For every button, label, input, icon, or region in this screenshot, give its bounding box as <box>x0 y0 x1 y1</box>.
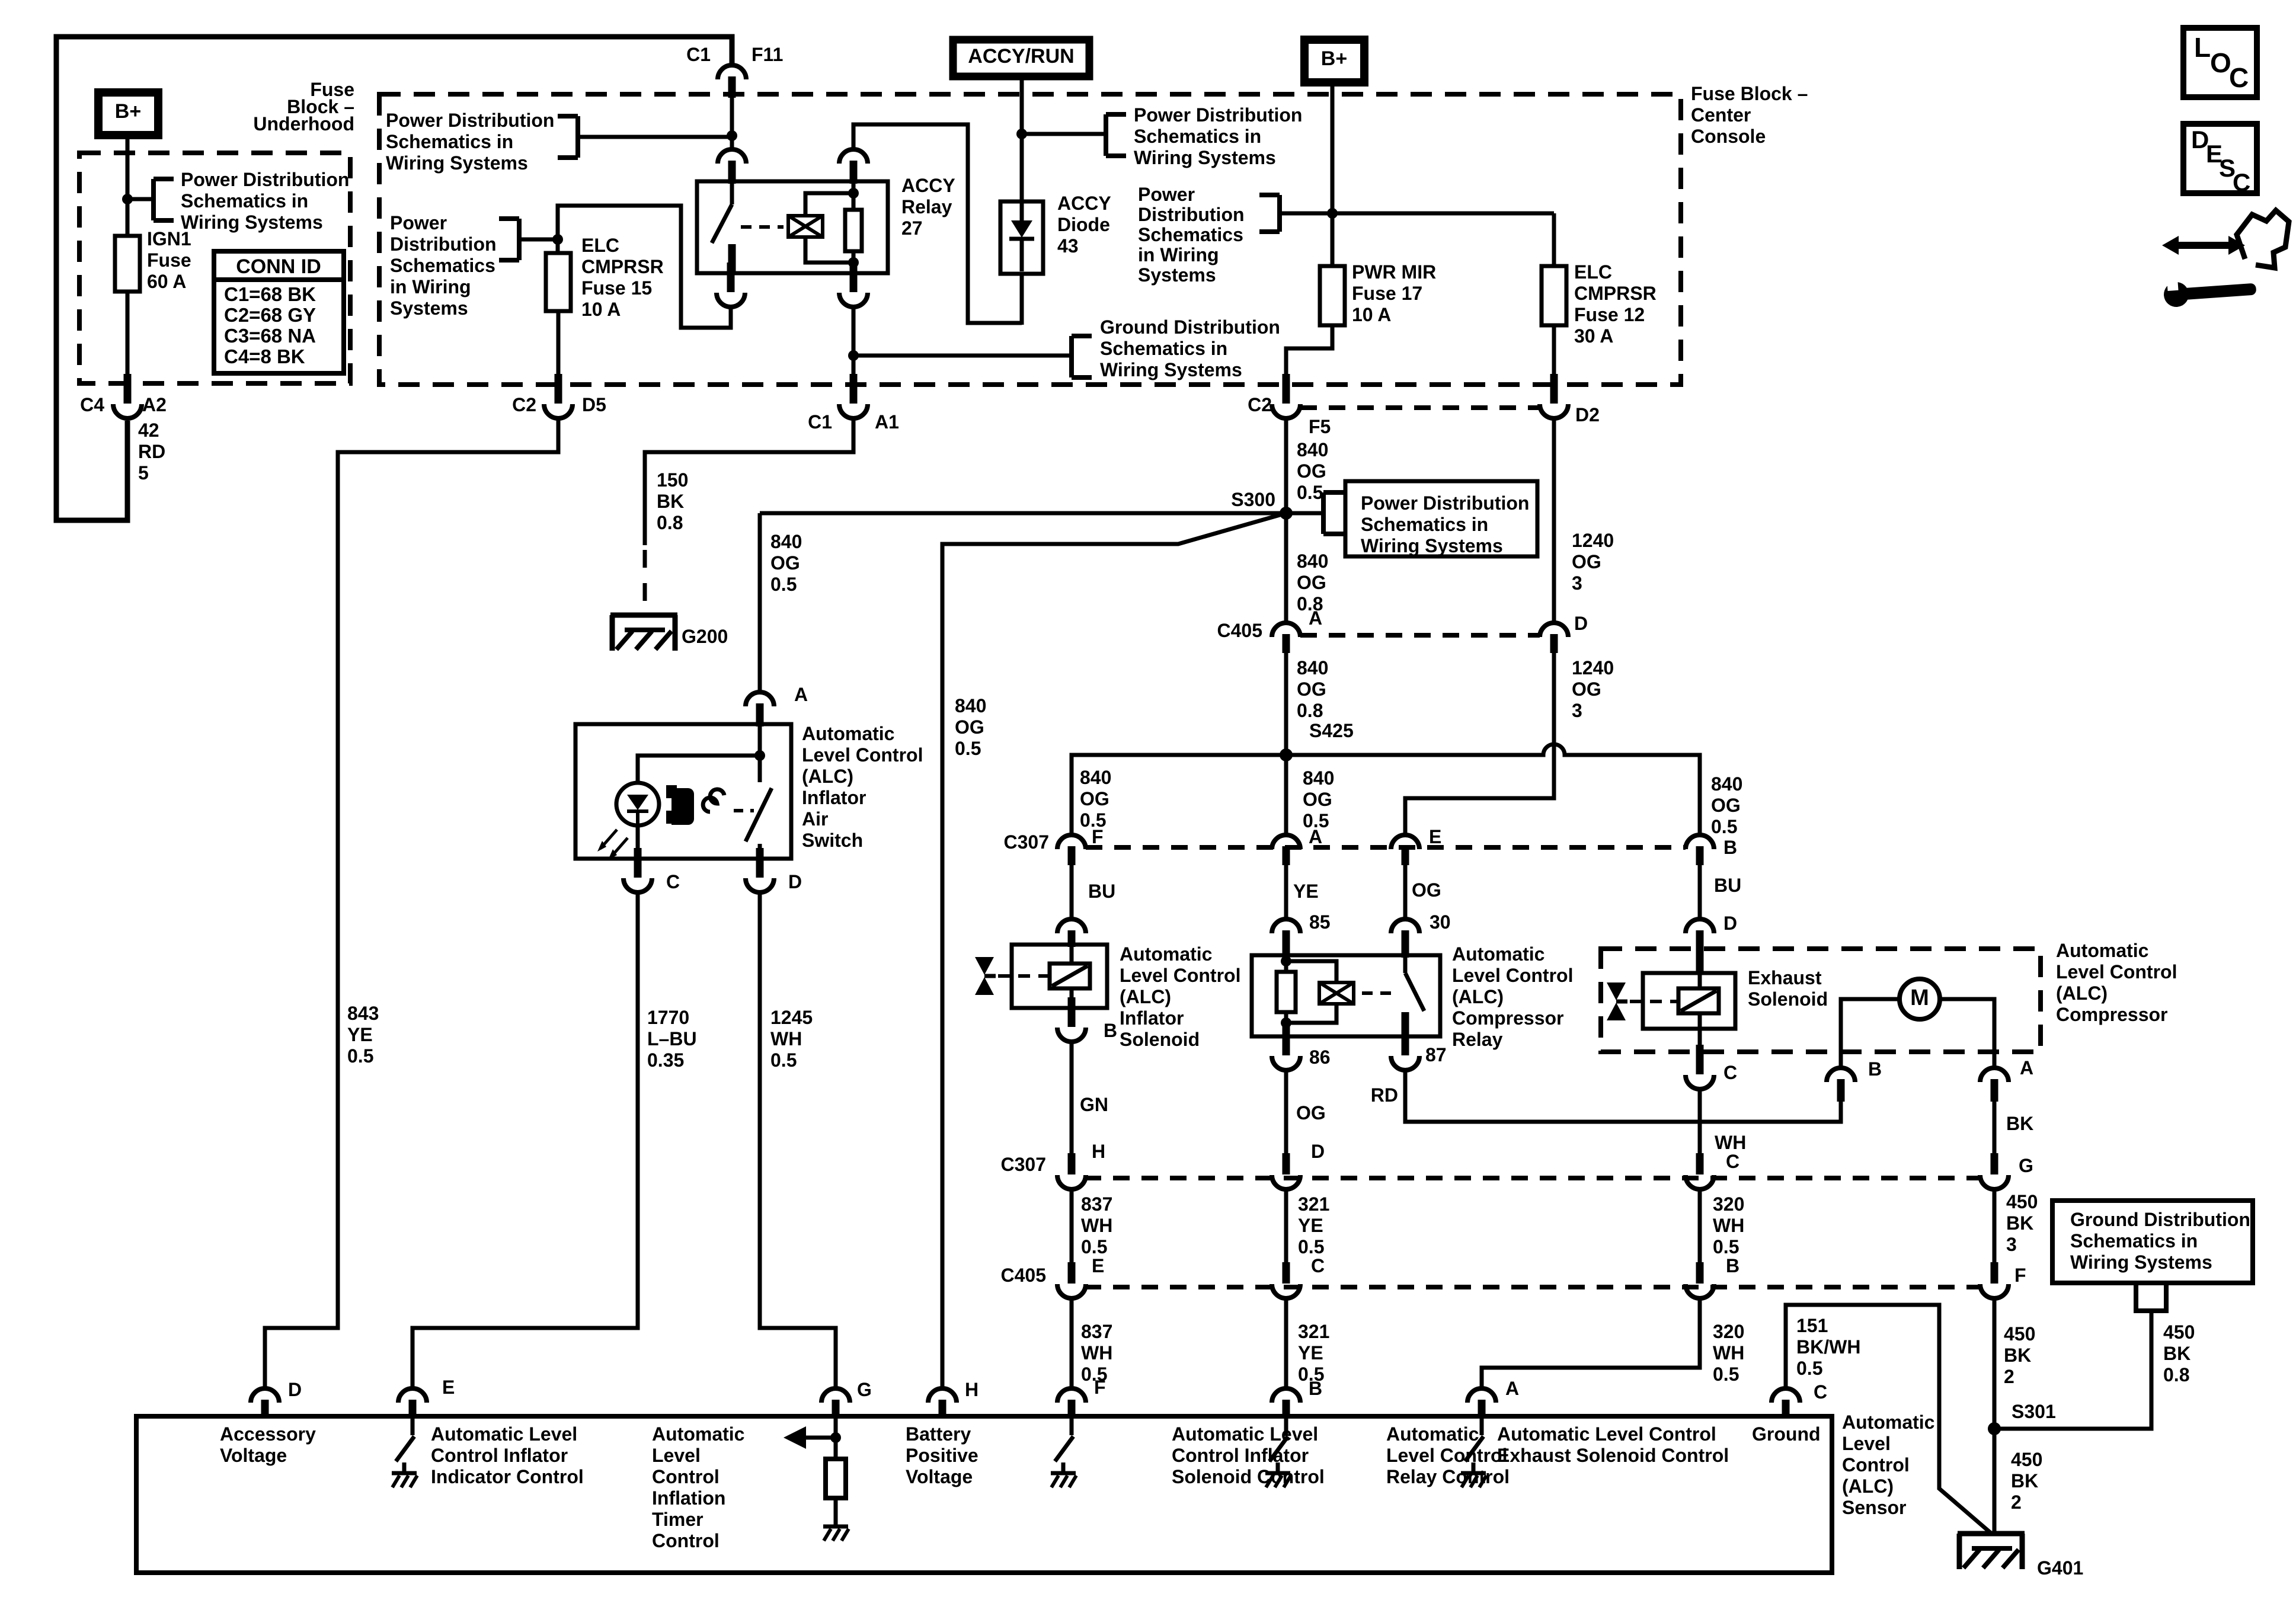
svg-text:1240: 1240 <box>1572 530 1614 551</box>
switch to ground module pin E <box>392 1419 417 1487</box>
label wire GN <box>1080 1094 1108 1115</box>
label A2 <box>142 394 167 415</box>
svg-text:C2: C2 <box>512 394 536 415</box>
svg-text:F: F <box>2014 1265 2026 1286</box>
svg-text:Accessory: Accessory <box>220 1423 316 1445</box>
fuse IGN1 60A <box>115 236 140 292</box>
switch to ground module pin A <box>1461 1419 1486 1487</box>
node coil top (compressor relay) <box>1281 956 1291 966</box>
svg-text:C4=8 BK: C4=8 BK <box>224 345 305 367</box>
label C1 (F11) <box>686 44 711 65</box>
svg-text:Voltage: Voltage <box>220 1445 287 1466</box>
svg-text:F5: F5 <box>1309 416 1331 437</box>
svg-text:B: B <box>1309 1378 1322 1399</box>
svg-text:Wiring Systems: Wiring Systems <box>1134 147 1276 168</box>
svg-text:BU: BU <box>1088 881 1115 902</box>
svg-text:1245: 1245 <box>770 1007 813 1028</box>
svg-text:0.8: 0.8 <box>2163 1364 2189 1385</box>
label Automatic Level Control Relay Control <box>1386 1423 1510 1487</box>
svg-text:E: E <box>1092 1255 1104 1276</box>
wire LED to pin C <box>636 825 640 859</box>
svg-text:2: 2 <box>2004 1366 2014 1387</box>
label G200 <box>682 626 728 647</box>
svg-text:S425: S425 <box>1309 720 1354 741</box>
node junction ground distribution <box>848 350 859 361</box>
label module pin A <box>1505 1378 1519 1399</box>
wire fuse 12 to D2 <box>1552 325 1556 374</box>
svg-text:30: 30 <box>1430 911 1451 933</box>
label Power Distribution Schematics in Wiring Systems (5 lines) <box>390 212 497 319</box>
LED indicator symbol <box>616 783 659 825</box>
diode box ACCY Diode 43 <box>1000 201 1043 274</box>
label F (C307) <box>1092 826 1104 847</box>
wire 87 to compressor B <box>1405 1070 1841 1122</box>
label wire 840 OG 0.5 (C307 F) <box>1080 767 1111 831</box>
wire coil loop compressor relay <box>1286 961 1336 1023</box>
svg-text:BK: BK <box>2004 1345 2031 1366</box>
svg-text:ELC: ELC <box>581 235 619 256</box>
connector module pin G <box>821 1388 850 1419</box>
svg-text:Control Inflator: Control Inflator <box>1172 1445 1309 1466</box>
svg-text:A: A <box>1309 607 1322 629</box>
svg-text:ACCY/RUN: ACCY/RUN <box>968 45 1074 68</box>
label Automatic Level Control (ALC) Sensor <box>1842 1412 1934 1518</box>
label module pin H <box>965 1379 978 1400</box>
label A1 <box>875 411 899 433</box>
label A (C405 upper) <box>1309 607 1322 629</box>
svg-text:Automatic: Automatic <box>2056 940 2148 961</box>
label S300 <box>1231 489 1275 510</box>
svg-text:Automatic: Automatic <box>802 723 894 744</box>
svg-text:Distribution: Distribution <box>390 233 497 255</box>
svg-text:Air: Air <box>802 808 828 830</box>
svg-text:in Wiring: in Wiring <box>390 276 471 297</box>
svg-text:BK: BK <box>2006 1113 2033 1134</box>
svg-text:OG: OG <box>1303 789 1332 810</box>
connector C air switch <box>623 848 652 892</box>
svg-text:Inflation: Inflation <box>652 1487 725 1509</box>
svg-text:Automatic: Automatic <box>1842 1412 1934 1433</box>
svg-text:C: C <box>1814 1381 1827 1403</box>
label Automatic Level Control Exhaust Solenoid Control <box>1497 1423 1729 1466</box>
solenoid box Exhaust Solenoid <box>1643 973 1735 1029</box>
label Fuse Block - Center Console <box>1691 83 1808 147</box>
wire motor to B terminal <box>1841 999 1900 1066</box>
label Power Distribution Schematics in Wiring (console 5 lines) <box>1138 184 1245 286</box>
wire C307 A to relay 85 <box>1284 865 1288 917</box>
svg-text:CMPRSR: CMPRSR <box>581 256 664 277</box>
svg-text:Battery: Battery <box>906 1423 971 1445</box>
svg-text:A: A <box>1505 1378 1519 1399</box>
label module pin C <box>1814 1381 1827 1403</box>
battery positive B+ symbol (console) <box>1304 40 1364 82</box>
svg-text:WH: WH <box>1081 1215 1112 1236</box>
label wire 1240 OG 3 (upper) <box>1572 530 1614 594</box>
svg-text:C: C <box>666 871 680 892</box>
label 87 <box>1425 1044 1447 1065</box>
legend box LOC <box>2183 28 2257 97</box>
svg-text:Level Control: Level Control <box>1452 965 1573 986</box>
connector C405 E lower <box>1057 1262 1086 1298</box>
label C2 (F5) <box>1248 394 1272 415</box>
label wire 843 YE 0.5 <box>347 1003 379 1067</box>
svg-text:Wiring Systems: Wiring Systems <box>181 212 323 233</box>
air valve glyph inside switch box <box>666 785 694 825</box>
node junction ACCY/RUN <box>1016 129 1027 139</box>
svg-text:D: D <box>788 871 802 892</box>
wire C405 B to module A <box>1482 1298 1700 1387</box>
svg-text:Level: Level <box>652 1445 701 1466</box>
svg-text:Indicator Control: Indicator Control <box>431 1466 584 1487</box>
node junction B+ console <box>1327 208 1338 219</box>
svg-text:Schematics in: Schematics in <box>2070 1230 2198 1252</box>
svg-text:OG: OG <box>1412 879 1441 901</box>
wire D to C405 C <box>1284 1189 1288 1263</box>
solenoid box ALC Inflator Solenoid <box>1012 945 1107 1008</box>
label wire WH (exhaust) <box>1715 1132 1746 1153</box>
label D2 <box>1575 404 1600 425</box>
wire junction to fuse 12 branch <box>1282 213 1554 266</box>
label wire 450 BK 2 (upper) <box>2004 1323 2035 1387</box>
svg-text:C: C <box>1723 1062 1737 1083</box>
svg-text:B: B <box>1723 837 1737 858</box>
fuse ELC CMPRSR Fuse 15 10A <box>546 253 571 311</box>
svg-text:C4: C4 <box>80 394 104 415</box>
dashed pneumatic link exhaust <box>1630 1000 1677 1003</box>
label module pin D <box>288 1379 302 1400</box>
label 86 <box>1309 1046 1331 1068</box>
dashed connector row C307 lower <box>1085 1176 1980 1180</box>
label E (C405 lower) <box>1092 1255 1104 1276</box>
wire pin C to module pin E <box>412 891 638 1387</box>
svg-text:Level Control: Level Control <box>802 744 923 766</box>
label C (air switch) <box>666 871 680 892</box>
battery positive B+ symbol (underhood) <box>98 92 158 135</box>
svg-text:Power Distribution: Power Distribution <box>181 169 349 190</box>
wire module pin C ground path <box>1786 1305 1990 1532</box>
reference bracket (S300) <box>1323 492 1344 534</box>
svg-text:42: 42 <box>138 420 159 441</box>
label Automatic Level Control (ALC) Compressor <box>2056 940 2177 1025</box>
switch box ALC Inflator Air Switch <box>575 724 791 859</box>
svg-text:Diode: Diode <box>1057 214 1110 235</box>
connector B inflator solenoid <box>1057 997 1086 1042</box>
svg-text:OG: OG <box>1572 551 1601 572</box>
label C405 (lower row) <box>1001 1265 1047 1286</box>
ground G401 <box>1958 1534 2025 1569</box>
label wire BU (exhaust) <box>1714 875 1741 896</box>
svg-text:Control: Control <box>1842 1454 1910 1476</box>
svg-text:840: 840 <box>1297 439 1328 460</box>
svg-text:86: 86 <box>1309 1046 1331 1068</box>
wire ACCY relay right entry loop <box>853 124 1022 323</box>
svg-text:0.5: 0.5 <box>1711 816 1737 837</box>
svg-text:Ground: Ground <box>1752 1423 1821 1445</box>
dashed connector row C405 upper <box>1300 633 1540 638</box>
svg-text:Schematics in: Schematics in <box>181 190 308 212</box>
label wire OG (relay) <box>1412 879 1441 901</box>
dashed connector row C307 upper <box>1086 845 1686 850</box>
svg-text:BK: BK <box>657 491 684 512</box>
svg-text:Schematics: Schematics <box>1138 224 1243 245</box>
svg-text:Power: Power <box>1138 184 1195 205</box>
svg-text:Level: Level <box>1842 1433 1891 1454</box>
svg-text:O: O <box>2210 47 2231 78</box>
wire pin A inside switch box <box>758 725 762 782</box>
label C (exhaust solenoid) <box>1723 1062 1737 1083</box>
svg-text:Level Control: Level Control <box>2056 961 2177 982</box>
svg-text:BK: BK <box>2163 1343 2191 1364</box>
svg-text:A1: A1 <box>875 411 899 433</box>
svg-text:WH: WH <box>1081 1342 1112 1364</box>
connector module pin D <box>251 1388 279 1419</box>
label wire 837 WH 0.5 (upper) <box>1081 1193 1112 1257</box>
label Automatic Level Control (ALC) Inflator Air Switch <box>802 723 923 851</box>
label wire 320 WH 0.5 (upper) <box>1713 1193 1744 1257</box>
wire coil loop ACCY relay <box>805 193 853 263</box>
wire C307 B to exhaust solenoid D <box>1698 865 1702 917</box>
label D (C307 lower) <box>1311 1141 1325 1162</box>
connector C4 A2 <box>113 374 142 418</box>
svg-text:A: A <box>2020 1057 2033 1078</box>
label wire RD <box>1371 1084 1398 1106</box>
label wire YE (relay) <box>1293 881 1319 902</box>
svg-text:WH: WH <box>1713 1342 1744 1364</box>
svg-text:Schematics in: Schematics in <box>386 131 513 152</box>
svg-text:H: H <box>965 1379 978 1400</box>
label C4 <box>80 394 104 415</box>
node coil bottom (compressor relay) <box>1281 1017 1291 1028</box>
label H (C307) <box>1092 1141 1105 1162</box>
svg-text:840: 840 <box>1297 551 1328 572</box>
label Power Distribution Schematics in Wiring Systems (console left) <box>386 110 554 174</box>
svg-text:321: 321 <box>1298 1321 1329 1342</box>
switch inside ACCY relay <box>712 184 736 273</box>
label wire 840 OG 0.8 (upper) <box>1297 551 1328 615</box>
connector C307 C lower <box>1686 1153 1714 1189</box>
label module pin G <box>857 1379 872 1400</box>
label B (C307) <box>1723 837 1737 858</box>
svg-text:Exhaust Solenoid Control: Exhaust Solenoid Control <box>1497 1445 1729 1466</box>
svg-text:Power Distribution: Power Distribution <box>1134 104 1302 126</box>
switch blade air switch <box>746 788 772 859</box>
label ACCY Relay 27 <box>901 175 955 239</box>
label wire 150 BK 0.8 <box>657 469 688 533</box>
svg-text:0.35: 0.35 <box>647 1049 684 1071</box>
wire C307 F to inflator solenoid A <box>1070 865 1074 917</box>
coil X-box ACCY relay <box>788 216 823 237</box>
svg-text:30 A: 30 A <box>1574 325 1613 347</box>
svg-text:F: F <box>1094 1377 1106 1398</box>
svg-text:320: 320 <box>1713 1193 1744 1215</box>
label D5 <box>582 394 606 415</box>
svg-text:C405: C405 <box>1217 620 1263 641</box>
svg-text:YE: YE <box>1293 881 1319 902</box>
solenoid coil exhaust <box>1678 973 1719 1029</box>
reference bracket left of ELC fuse <box>499 219 519 260</box>
node junction at ELC fuse <box>552 234 563 245</box>
label B (compressor) <box>1868 1058 1882 1080</box>
svg-text:Switch: Switch <box>802 830 863 851</box>
diode symbol <box>1009 204 1034 271</box>
label D (exhaust solenoid) <box>1723 913 1737 934</box>
wire C405 D to relay 30 feed <box>1405 653 1554 834</box>
wire inflator B to C307 H <box>1070 1040 1074 1153</box>
svg-text:Solenoid Control: Solenoid Control <box>1172 1466 1325 1487</box>
connector C307 E <box>1391 835 1419 865</box>
label C1 (A1) <box>808 411 832 433</box>
connector C1 F11 <box>718 65 746 98</box>
module box ALC sensor <box>136 1416 1832 1573</box>
svg-text:CONN ID: CONN ID <box>236 255 321 278</box>
air valve inflator solenoid <box>975 957 996 995</box>
wire S300 diagonal to battery positive feed <box>942 513 1286 1387</box>
node junction on B+ wire <box>122 194 133 204</box>
connector C307 G lower <box>1980 1153 2009 1189</box>
label wire 450 BK 0.8 <box>2163 1321 2195 1385</box>
boxed label Ground Distribution Schematics in Wiring Systems <box>2052 1201 2253 1283</box>
svg-text:Systems: Systems <box>1138 264 1216 286</box>
node junction inside switch box <box>754 750 765 761</box>
svg-text:0.5: 0.5 <box>770 1049 797 1071</box>
svg-text:G200: G200 <box>682 626 728 647</box>
svg-text:Automatic: Automatic <box>652 1423 744 1445</box>
svg-text:3: 3 <box>1572 572 1582 594</box>
connector C405 D upper <box>1540 623 1568 653</box>
svg-text:43: 43 <box>1057 235 1079 257</box>
svg-text:840: 840 <box>1303 767 1334 789</box>
connector C2 F5 <box>1272 374 1300 418</box>
svg-text:87: 87 <box>1425 1044 1447 1065</box>
label Accessory Voltage <box>220 1423 316 1466</box>
svg-text:0.5: 0.5 <box>347 1045 373 1067</box>
connector into ACCY relay left <box>718 149 746 184</box>
svg-text:OG: OG <box>770 552 800 574</box>
svg-text:BK: BK <box>2006 1212 2033 1234</box>
svg-text:843: 843 <box>347 1003 379 1024</box>
svg-text:C: C <box>1311 1255 1325 1276</box>
svg-text:B+: B+ <box>1321 47 1347 70</box>
label E (C307) <box>1429 826 1441 847</box>
svg-text:0.5: 0.5 <box>770 574 797 595</box>
reference bracket (console B+) <box>1259 195 1280 232</box>
svg-text:Center: Center <box>1691 104 1751 126</box>
svg-text:OG: OG <box>1080 788 1109 809</box>
label Automatic Level Control Inflator Indicator Control <box>431 1423 584 1487</box>
svg-text:YE: YE <box>1298 1215 1323 1236</box>
connector 87 relay <box>1391 1026 1419 1070</box>
connector module pin E <box>398 1388 427 1419</box>
label IGN1 Fuse 60 A <box>147 228 191 292</box>
wire exhaust solenoid to C connector <box>1698 1029 1702 1055</box>
connector table CONN ID <box>214 251 344 373</box>
wire air switch pin A feed <box>758 513 762 690</box>
label Ground Distribution Schematics in Wiring Systems <box>1100 316 1280 380</box>
wire exhaust C to C307 row <box>1698 1089 1702 1153</box>
wire ACCY/RUN to diode <box>1020 76 1024 204</box>
svg-text:RD: RD <box>138 441 165 462</box>
svg-text:450: 450 <box>2011 1449 2042 1470</box>
resistor inside ACCY relay <box>845 181 862 273</box>
label 85 <box>1309 911 1331 933</box>
svg-text:OG: OG <box>1572 679 1601 700</box>
svg-text:Schematics: Schematics <box>390 255 495 276</box>
connector C405 C lower <box>1272 1262 1300 1298</box>
svg-text:0.5: 0.5 <box>1796 1358 1822 1379</box>
svg-text:RD: RD <box>1371 1084 1398 1106</box>
wire F5 to S300 <box>1284 417 1288 621</box>
node junction C1 wire <box>727 130 737 141</box>
label Ground <box>1752 1423 1821 1445</box>
dashed actuator link compressor relay <box>1362 991 1399 995</box>
svg-text:Wiring Systems: Wiring Systems <box>1361 535 1503 556</box>
dashed actuator link switch <box>734 809 754 812</box>
label wire 450 BK 2 (lower) <box>2011 1449 2042 1513</box>
label C307 (lower row) <box>1001 1154 1047 1175</box>
label wire OG (86) <box>1296 1102 1326 1124</box>
node S425 <box>1280 748 1293 761</box>
svg-text:C405: C405 <box>1001 1265 1047 1286</box>
dashed actuator link ACCY relay <box>741 225 784 229</box>
svg-text:C307: C307 <box>1004 831 1050 853</box>
label module pin B <box>1309 1378 1322 1399</box>
reference bracket (ACCY run) <box>1106 114 1126 156</box>
svg-text:L–BU: L–BU <box>647 1028 697 1049</box>
svg-text:Voltage: Voltage <box>906 1466 973 1487</box>
svg-text:Schematics in: Schematics in <box>1134 126 1261 147</box>
label C2 (D5) <box>512 394 536 415</box>
connector module pin F <box>1057 1388 1086 1419</box>
svg-text:D: D <box>1723 913 1737 934</box>
svg-text:B: B <box>1726 1255 1739 1276</box>
connector C405 A upper <box>1272 623 1300 653</box>
switch compressor relay <box>1402 955 1425 1036</box>
wire battery feed loop from B+ underhood to C1 F11 <box>56 37 732 520</box>
svg-text:840: 840 <box>1297 657 1328 679</box>
label Power Distribution Schematics in Wiring Systems (right) <box>1134 104 1302 168</box>
svg-text:C: C <box>2233 168 2250 196</box>
svg-text:Automatic: Automatic <box>1120 943 1212 965</box>
compressor dashed box ALC Compressor <box>1601 949 2041 1052</box>
boxed label Power Distribution Schematics in Wiring Systems <box>1345 481 1537 556</box>
connector module pin H <box>928 1388 957 1419</box>
svg-text:840: 840 <box>770 531 802 552</box>
svg-text:0.5: 0.5 <box>1081 1236 1107 1257</box>
connector C2 D5 <box>544 374 573 418</box>
svg-text:YE: YE <box>1298 1342 1323 1364</box>
svg-text:C2: C2 <box>1248 394 1272 415</box>
reference bracket ground distribution <box>1072 336 1092 377</box>
svg-text:10 A: 10 A <box>1352 304 1391 325</box>
svg-text:PWR MIR: PWR MIR <box>1352 261 1436 283</box>
svg-text:837: 837 <box>1081 1321 1112 1342</box>
svg-text:Schematics in: Schematics in <box>1100 338 1227 359</box>
svg-text:L: L <box>2194 32 2211 63</box>
wire C1 A1 to G200 drop <box>645 417 853 545</box>
svg-text:C1: C1 <box>686 44 711 65</box>
svg-text:Relay: Relay <box>901 196 952 217</box>
svg-text:Fuse: Fuse <box>147 249 191 271</box>
label Exhaust Solenoid <box>1748 967 1828 1010</box>
label B (inflator solenoid) <box>1104 1020 1117 1041</box>
svg-text:837: 837 <box>1081 1193 1112 1215</box>
LED light arrows <box>597 830 628 860</box>
wire to power distribution bracket <box>1022 132 1105 136</box>
relay box ALC Compressor Relay <box>1252 955 1440 1036</box>
connector A compressor <box>1980 1068 2009 1102</box>
svg-text:450: 450 <box>2004 1323 2035 1345</box>
wire relay output to ELC CMPRSR fuse <box>558 206 731 328</box>
